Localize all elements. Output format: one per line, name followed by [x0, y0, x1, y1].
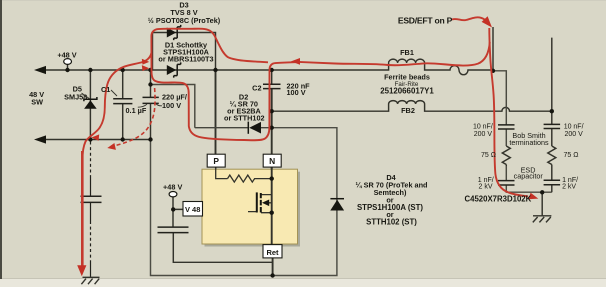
svg-text:C1: C1 [101, 85, 110, 94]
svg-text:200 V: 200 V [565, 131, 584, 138]
svg-text:2512066017Y1: 2512066017Y1 [380, 87, 434, 96]
svg-text:Ret: Ret [266, 248, 279, 257]
svg-text:C4520X7R3D102K: C4520X7R3D102K [465, 195, 532, 204]
svg-text:200 V: 200 V [474, 131, 493, 138]
svg-text:capacitor: capacitor [514, 172, 544, 181]
svg-text:10 nF/: 10 nF/ [473, 124, 493, 131]
svg-text:+48 V: +48 V [57, 50, 76, 59]
svg-text:N: N [269, 156, 275, 166]
svg-text:FB2: FB2 [401, 106, 415, 115]
svg-text:SMJ58: SMJ58 [64, 93, 87, 102]
svg-text:+48 V: +48 V [163, 182, 182, 191]
svg-text:2 kV: 2 kV [562, 183, 576, 190]
svg-text:STTH102 (ST): STTH102 (ST) [366, 218, 417, 227]
svg-text:P: P [213, 156, 219, 166]
svg-text:C2: C2 [252, 84, 261, 93]
svg-text:FB1: FB1 [400, 48, 414, 57]
svg-text:V 48: V 48 [185, 205, 200, 214]
svg-text:10 nF/: 10 nF/ [564, 124, 584, 131]
svg-text:0.1 µF: 0.1 µF [126, 106, 147, 115]
svg-text:terminations: terminations [509, 138, 549, 147]
svg-text:100 V: 100 V [287, 88, 306, 97]
svg-text:or STTH102: or STTH102 [224, 113, 265, 122]
svg-text:100 V: 100 V [162, 101, 181, 110]
svg-text:ESD/EFT on P: ESD/EFT on P [398, 16, 453, 26]
svg-text:or MBRS1100T3: or MBRS1100T3 [158, 55, 213, 64]
svg-text:75 Ω: 75 Ω [481, 152, 496, 159]
svg-text:2 kV: 2 kV [478, 183, 492, 190]
svg-text:75 Ω: 75 Ω [564, 152, 579, 159]
svg-text:SW: SW [31, 98, 43, 107]
svg-text:½ PSOT08C (ProTek): ½ PSOT08C (ProTek) [148, 16, 221, 25]
